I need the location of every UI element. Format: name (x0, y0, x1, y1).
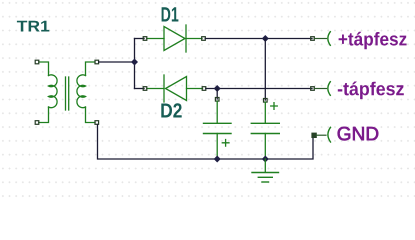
capacitor C2 bottom plate (251, 133, 279, 135)
diode D1 cathode terminal square (202, 37, 206, 41)
transformer TR1 secondary bottom terminal square (95, 121, 99, 125)
port +tapfesz stub (314, 38, 326, 40)
junction node A (131, 59, 138, 66)
capacitor C1 polarity plus (222, 140, 229, 147)
transformer TR1 primary top pin (39, 62, 49, 76)
ground symbol bar 3 (262, 181, 269, 183)
transformer TR1 designator label (17, 21, 49, 32)
diode D2 anode pin (187, 88, 203, 90)
junction node C on negative rail (214, 85, 221, 92)
port +tapfesz arc (328, 32, 330, 46)
transformer TR1 secondary winding (77, 75, 86, 108)
wire D1 cathode to +tapfesz port (205, 38, 312, 40)
capacitor C1 bottom lead (216, 134, 218, 160)
port -tapfesz label (338, 82, 404, 100)
junction node E C2 to ground rail (262, 156, 269, 163)
diode D1 triangle (164, 27, 185, 51)
diode D1 cathode pin (186, 38, 202, 40)
diode D2 cathode bar (163, 75, 165, 102)
wire secondary top to node A (99, 61, 135, 63)
port -tapfesz arc (328, 82, 330, 96)
wire node B down to capacitor C2 (264, 39, 266, 101)
transformer TR1 secondary bottom pin (86, 107, 96, 123)
wire node C down to capacitor C1 (216, 89, 218, 100)
wire node A to D1 anode (135, 38, 145, 40)
wire node A to D2 cathode (135, 88, 145, 90)
diode D2 anode terminal square (202, 87, 206, 91)
port GND arc (328, 127, 331, 142)
capacitor C2 top lead (264, 102, 266, 123)
wire node A vertical branch (134, 39, 136, 89)
junction node D C1 to ground rail (214, 156, 221, 163)
port GND stub (316, 134, 326, 136)
diode D2 cathode terminal square (143, 87, 147, 91)
capacitor C1 top lead (216, 101, 218, 123)
diode D1 anode terminal square (143, 37, 147, 41)
transformer TR1 primary bottom pin (39, 107, 49, 123)
diode D1 cathode bar (185, 25, 187, 52)
capacitor C2 polarity plus (271, 103, 278, 110)
ground symbol bar 1 (252, 172, 279, 174)
junction node B on positive rail (262, 35, 269, 42)
transformer TR1 core (66, 77, 69, 110)
transformer TR1 secondary top terminal square (95, 60, 99, 64)
port GND terminal square (312, 133, 316, 137)
port -tapfesz stub (314, 88, 326, 90)
port -tapfesz terminal square (311, 87, 315, 91)
ground symbol stem (264, 159, 266, 172)
wire ground rail (98, 125, 314, 160)
capacitor C1 top plate (204, 122, 232, 124)
capacitor C2 top plate (251, 122, 279, 124)
transformer TR1 primary top terminal square (35, 60, 39, 64)
ground symbol bar 2 (258, 176, 272, 178)
diode D2 triangle (166, 77, 187, 101)
port +tapfesz label (339, 32, 407, 49)
port +tapfesz terminal square (311, 37, 315, 41)
capacitor C1 bottom plate (204, 133, 232, 135)
capacitor C2 bottom lead (264, 134, 266, 160)
transformer TR1 secondary top pin (86, 62, 96, 76)
capacitor C2 top terminal square (264, 99, 268, 103)
capacitor C1 top terminal square (215, 98, 219, 102)
diode D2 designator label (161, 103, 181, 117)
diode D1 anode pin (147, 38, 164, 40)
diode D1 designator label (162, 7, 179, 21)
diode D2 cathode pin (147, 88, 164, 90)
port GND label (338, 127, 379, 141)
transformer TR1 primary bottom terminal square (35, 121, 39, 125)
wire D2 anode to -tapfesz port (206, 88, 312, 90)
transformer TR1 primary winding (49, 75, 58, 108)
